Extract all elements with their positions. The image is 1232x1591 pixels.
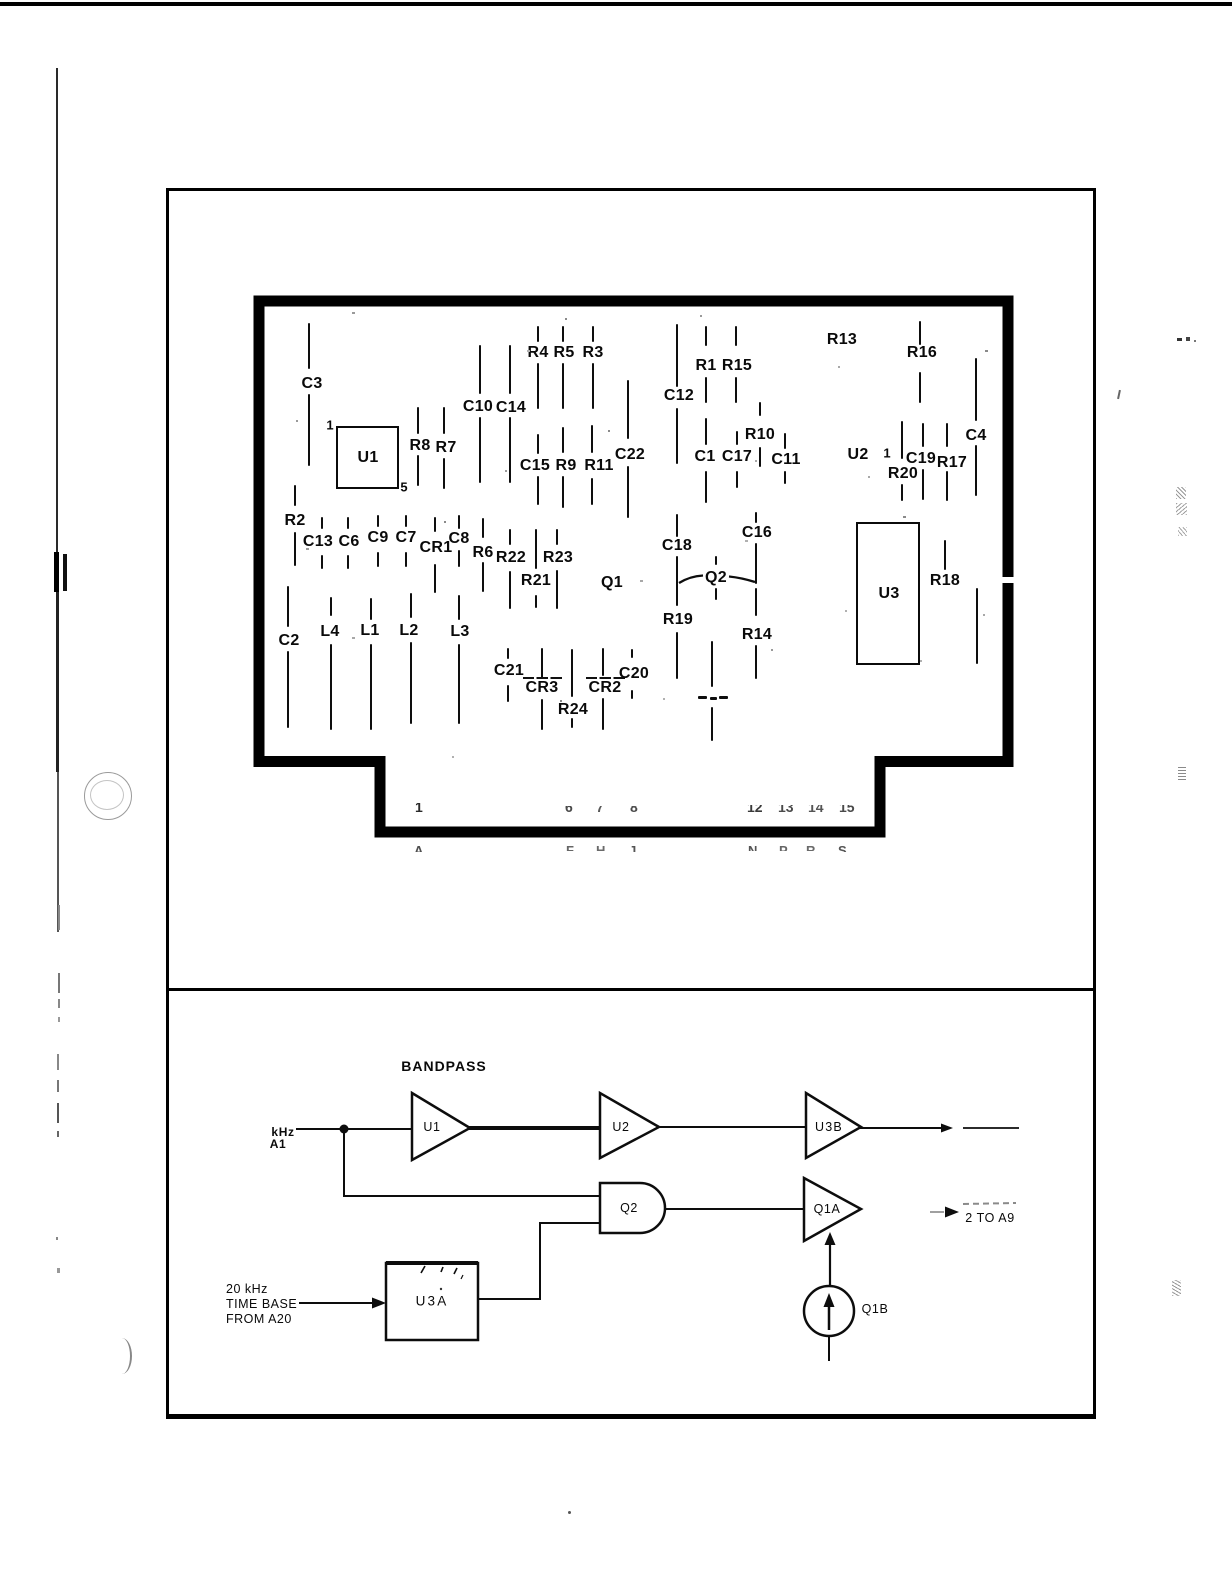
- resistor R9: [562, 427, 564, 453]
- resistor R7: [443, 407, 445, 434]
- faint bracket mark lower left: [112, 1338, 132, 1374]
- input wire from A1: [296, 1128, 413, 1130]
- label U2 (diagram): [612, 1120, 629, 1134]
- left margin line lower: [56, 592, 59, 772]
- diode CR2: [602, 648, 604, 676]
- transistor Q2 lead left: [679, 576, 703, 584]
- resistor R3: [592, 326, 594, 342]
- wire U2 to U3B: [658, 1126, 807, 1128]
- capacitor C19: [922, 423, 924, 447]
- current source Q1B: [804, 1286, 854, 1336]
- inductor L1: [370, 598, 372, 620]
- U1 pin 5: [400, 480, 407, 495]
- capacitor C13: [321, 517, 323, 529]
- junction node: [340, 1125, 349, 1134]
- capacitor C11: [784, 433, 786, 449]
- capacitor C20: [631, 649, 633, 658]
- arrow 20kHz into U3A: [299, 1302, 376, 1304]
- stray dot bottom: [568, 1511, 571, 1514]
- AND gate Q2: [600, 1183, 665, 1233]
- Q1B inner arrow: [828, 1304, 831, 1330]
- capacitor C16: [755, 512, 757, 523]
- resistor R11: [591, 425, 593, 453]
- right margin smudge lower: [1178, 766, 1186, 780]
- capacitor C22: [627, 380, 629, 439]
- resistor R16: [919, 321, 921, 345]
- label 20 kHz TIME BASE FROM A20: [226, 1282, 297, 1326]
- resistor R2: [294, 485, 296, 506]
- left margin binding line: [56, 68, 58, 560]
- arrowhead 2 TO A9: [945, 1207, 959, 1218]
- capacitor C7: [405, 515, 407, 527]
- resistor R21: [535, 529, 537, 569]
- capacitor C15: [537, 434, 539, 454]
- diode CR3: [541, 648, 543, 678]
- capacitor C14: [509, 345, 511, 394]
- IC U1: [336, 426, 399, 489]
- resistor R15: [735, 326, 737, 346]
- left margin ink blob 2: [63, 554, 67, 591]
- resistor R24: [571, 649, 573, 697]
- wire junction to gate Q2: [343, 1195, 601, 1197]
- wire junction down: [343, 1129, 345, 1197]
- IC U3: [856, 522, 920, 665]
- label U1 (diagram): [423, 1120, 440, 1134]
- label Q1A: [814, 1202, 841, 1216]
- left margin line fading: [57, 772, 59, 932]
- label 2 TO A9: [965, 1211, 1015, 1225]
- edge connector pin numbers row 2: [414, 845, 434, 852]
- arrow Q1B to Q1A: [829, 1243, 831, 1286]
- IC U2 label: [847, 446, 868, 464]
- capacitor C17: [736, 431, 738, 445]
- right margin dots: [1177, 338, 1182, 341]
- label Q2 (gate): [620, 1201, 638, 1215]
- label Q1B: [862, 1302, 889, 1316]
- transistor Q1 lead line: [711, 641, 713, 687]
- broken trace dashes: [698, 696, 707, 699]
- transistor Q2 (board): [715, 556, 717, 565]
- inductor L3: [458, 595, 460, 620]
- frame divider line: [166, 988, 1096, 991]
- wire U3A up to gate: [478, 1223, 601, 1299]
- transistor Q1 label: [601, 574, 623, 592]
- amplifier U1: [412, 1093, 470, 1160]
- PCB board outline: [259, 301, 1008, 832]
- resistor R17: [946, 423, 948, 447]
- resistor R8: [417, 407, 419, 434]
- frame bottom edge thickening: [166, 1414, 1096, 1417]
- diode CR1: [434, 517, 436, 532]
- resistor R4: [537, 326, 539, 342]
- scan speckles on board: [352, 312, 355, 314]
- label U3A: [416, 1294, 449, 1309]
- left margin ink blob: [54, 552, 59, 592]
- capacitor C18: [676, 514, 678, 537]
- label A1: [270, 1137, 287, 1151]
- resistor R13 label: [827, 331, 857, 349]
- capacitor C8: [458, 515, 460, 529]
- right margin speckles: [1176, 487, 1186, 499]
- U2 pin 1: [883, 446, 890, 461]
- output arrowhead: [941, 1124, 953, 1133]
- block U3A: [386, 1263, 478, 1340]
- capacitor C1: [705, 418, 707, 445]
- amplifier Q1A: [804, 1178, 861, 1241]
- label BANDPASS: [401, 1058, 487, 1074]
- resistor R6: [482, 518, 484, 538]
- inductor L2: [410, 593, 412, 618]
- output wire continuation: [963, 1127, 1019, 1129]
- resistor R18: [944, 540, 946, 570]
- thick wire U1 to U2: [469, 1126, 601, 1130]
- U1 pin 1: [326, 418, 333, 433]
- right margin tick: [1117, 390, 1121, 399]
- resistor R10: [759, 402, 761, 416]
- resistor R19: [676, 632, 678, 679]
- wire gate Q2 to Q1A: [666, 1208, 805, 1210]
- top edge scan bar: [0, 2, 1232, 6]
- resistor R1: [705, 326, 707, 346]
- capacitor C12: [676, 324, 678, 387]
- inductor L4: [330, 597, 332, 616]
- left margin dashes: [58, 905, 60, 930]
- transistor Q2 lead right: [729, 577, 755, 583]
- capacitor C21: [507, 648, 509, 659]
- capacitor C6: [347, 517, 349, 529]
- capacitor C3: [308, 323, 310, 369]
- amplifier U3B: [806, 1093, 861, 1158]
- edge connector pin numbers row 1: [415, 803, 437, 812]
- resistor R14: [755, 588, 757, 616]
- resistor R20: [901, 421, 903, 459]
- capacitor C10: [479, 345, 481, 394]
- capacitor C9: [377, 515, 379, 527]
- resistor R5: [562, 326, 564, 342]
- wire below Q1B: [828, 1336, 830, 1361]
- capacitor C2: [287, 586, 289, 627]
- U3A hatch marks: [421, 1266, 425, 1273]
- scratched dashes above 2 TO A9: [963, 1203, 1016, 1204]
- label kHz: [271, 1125, 294, 1139]
- faint round stamp: [84, 772, 132, 820]
- figure outer frame: [166, 188, 1096, 1419]
- label U3B: [815, 1120, 843, 1134]
- resistor R23: [556, 529, 558, 545]
- amplifier U2: [600, 1093, 659, 1158]
- output wire U3B: [860, 1127, 948, 1129]
- capacitor C4: [975, 358, 977, 421]
- resistor R22: [509, 529, 511, 545]
